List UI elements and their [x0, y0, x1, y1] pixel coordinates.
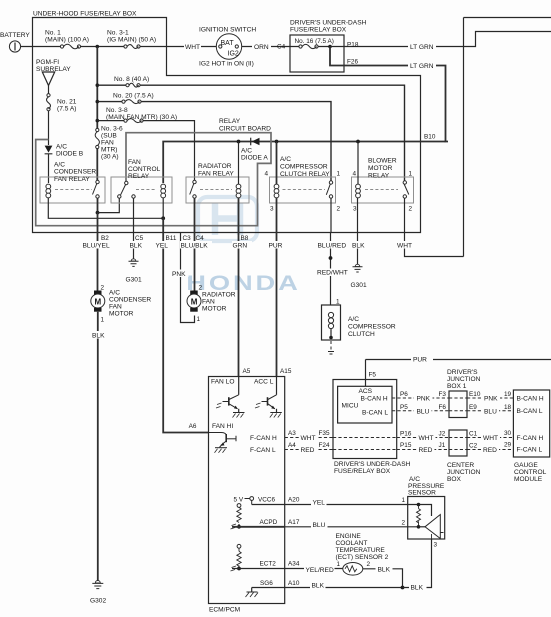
wire P15 RED J1 — [397, 449, 449, 451]
svg-text:PNK: PNK — [172, 271, 186, 278]
wire A17 BLU to pressure sensor — [232, 526, 285, 528]
A/C diode B — [45, 146, 53, 183]
svg-text:B-CAN L: B-CAN L — [362, 410, 388, 417]
svg-text:No. 20 (7.5 A): No. 20 (7.5 A) — [113, 93, 154, 100]
svg-text:RADIATOR: RADIATOR — [202, 292, 236, 299]
svg-text:4: 4 — [352, 171, 356, 178]
svg-text:A4: A4 — [288, 442, 296, 449]
svg-text:A5: A5 — [243, 368, 251, 375]
svg-text:F35: F35 — [319, 430, 330, 437]
svg-text:4: 4 — [264, 171, 268, 178]
wire C5 BLK to G301 — [133, 233, 135, 261]
svg-text:WHT: WHT — [483, 435, 498, 442]
svg-text:B-CAN L: B-CAN L — [517, 408, 543, 415]
svg-text:CONDENSER: CONDENSER — [109, 297, 151, 304]
ignition switch — [216, 34, 241, 59]
relay A/C compressor clutch relay coil — [274, 184, 279, 198]
svg-text:F3: F3 — [439, 391, 447, 398]
svg-text:BLOWER: BLOWER — [368, 158, 397, 165]
relay A/C compressor clutch relay link — [283, 189, 326, 191]
svg-text:2: 2 — [409, 206, 413, 213]
svg-text:ENGINE: ENGINE — [336, 533, 362, 540]
wire blower coil to BLK pin 3 — [357, 198, 359, 233]
svg-text:CIRCUIT BOARD: CIRCUIT BOARD — [219, 126, 271, 133]
svg-text:SUBRELAY: SUBRELAY — [36, 66, 71, 73]
svg-text:E10: E10 — [469, 391, 481, 398]
radiator fan motor — [187, 291, 201, 312]
wire PUR to ECM A15 — [276, 233, 278, 377]
svg-text:FAN: FAN — [101, 140, 114, 147]
svg-text:MICU: MICU — [342, 403, 359, 410]
svg-text:FUSE/RELAY BOX: FUSE/RELAY BOX — [334, 468, 391, 475]
svg-text:(MAIN FAN MTR) (30 A): (MAIN FAN MTR) (30 A) — [106, 114, 177, 121]
svg-text:A20: A20 — [288, 497, 300, 504]
svg-text:COMPRESSOR: COMPRESSOR — [280, 164, 328, 171]
wire F-CAN L row through driver's box — [333, 449, 397, 451]
svg-text:BLK: BLK — [130, 243, 143, 250]
PGM-FI subrelay — [42, 72, 54, 94]
svg-text:B-CAN H: B-CAN H — [361, 396, 388, 403]
svg-text:1: 1 — [337, 171, 341, 178]
svg-text:BAT: BAT — [221, 40, 235, 47]
svg-text:P5: P5 — [400, 404, 408, 411]
svg-text:No. 3-8: No. 3-8 — [106, 107, 128, 114]
ECM/PCM box — [209, 377, 285, 604]
fuse No.21 (7.5 A) — [47, 94, 51, 145]
watermark Honda H emblem — [198, 197, 257, 241]
wire ignition to driver's box ORN — [242, 46, 290, 48]
svg-text:J2: J2 — [439, 431, 446, 438]
svg-text:1: 1 — [409, 171, 413, 178]
MICU box — [338, 386, 392, 423]
wire pressure sensor pin3 BLK — [403, 539, 432, 588]
wire BLU/RED RED/WHT to A/C compressor clutch — [330, 233, 332, 305]
svg-text:J1: J1 — [439, 442, 446, 449]
svg-text:YEL/RED: YEL/RED — [306, 567, 334, 574]
svg-text:B2: B2 — [101, 235, 109, 242]
relay A/C compressor clutch relay box — [270, 177, 336, 203]
center junction box — [449, 430, 467, 456]
svg-text:C3: C3 — [183, 235, 192, 242]
svg-text:ECT2: ECT2 — [260, 561, 277, 568]
svg-text:JUNCTION: JUNCTION — [447, 469, 481, 476]
wire F26 LT GRN to B10 — [330, 47, 448, 142]
svg-text:PUR: PUR — [269, 243, 283, 250]
fuse No.8 symbol — [126, 83, 140, 87]
wire C4 BLU/BLK to radiator motor — [194, 233, 196, 291]
svg-text:F5: F5 — [369, 372, 377, 379]
transistor FAN HI — [208, 433, 236, 453]
svg-text:G301: G301 — [351, 282, 367, 289]
wire blower switch to WHT pin 2 — [404, 198, 406, 233]
svg-text:BOX 1: BOX 1 — [447, 383, 467, 390]
svg-text:YEL: YEL — [313, 500, 326, 507]
fuse No.20 symbol — [122, 100, 141, 104]
transistor FAN LO — [216, 377, 245, 418]
svg-text:M: M — [95, 298, 102, 307]
fuse No.3-6 (SUB FAN MTR) (30 A) — [95, 128, 99, 148]
svg-text:FAN LO: FAN LO — [211, 379, 234, 386]
svg-text:LT GRN: LT GRN — [410, 44, 434, 51]
wire fuse No.3-8 to radiator relay — [97, 121, 194, 182]
wire B11 YEL to ECM A6 — [163, 218, 208, 432]
svg-text:A/C: A/C — [348, 316, 359, 323]
svg-text:C1: C1 — [469, 431, 478, 438]
wire A10 BLK — [252, 587, 403, 589]
svg-text:2: 2 — [199, 285, 203, 292]
wire compressor relay coil tap — [276, 142, 278, 185]
svg-text:3: 3 — [353, 206, 357, 213]
label WHT — [184, 43, 201, 52]
relay radiator fan relay switch — [190, 180, 197, 198]
svg-text:BLU: BLU — [417, 408, 430, 415]
svg-text:MODULE: MODULE — [514, 476, 543, 483]
wire E10 PNK 19 — [467, 397, 513, 399]
svg-text:TEMPERATURE: TEMPERATURE — [336, 547, 386, 554]
relay fan control relay switch — [118, 181, 136, 198]
wire C1 WHT 30 — [467, 437, 513, 439]
svg-text:PNK: PNK — [417, 396, 431, 403]
svg-text:WHT: WHT — [301, 435, 316, 442]
relay coil feed wire LT GRN B10 — [163, 142, 445, 184]
wire F-CAN H A3 to F35 — [285, 437, 333, 439]
svg-text:C5: C5 — [135, 235, 144, 242]
svg-text:COOLANT: COOLANT — [336, 540, 368, 547]
wire compressor coil to PUR pin 3 — [276, 198, 278, 233]
node compressor relay coil tap — [275, 140, 279, 144]
relay A/C condenser fan relay switch — [93, 180, 100, 198]
svg-text:A/C: A/C — [409, 476, 420, 483]
relay fan control relay link — [136, 189, 157, 191]
svg-text:(MAIN) (100 A): (MAIN) (100 A) — [45, 37, 89, 44]
battery B1 — [9, 41, 32, 52]
svg-text:BLK: BLK — [92, 333, 105, 340]
svg-text:F-CAN H: F-CAN H — [250, 435, 277, 442]
svg-text:G301: G301 — [126, 277, 142, 284]
svg-text:WHT: WHT — [419, 435, 434, 442]
svg-text:CONTROL: CONTROL — [514, 469, 547, 476]
node radiator relay coil tap — [237, 140, 241, 144]
svg-text:1: 1 — [101, 317, 105, 324]
svg-text:DIODE B: DIODE B — [56, 151, 84, 158]
svg-text:B-CAN H: B-CAN H — [517, 396, 544, 403]
svg-text:A10: A10 — [288, 580, 300, 587]
svg-text:F-CAN H: F-CAN H — [517, 435, 544, 442]
relay blower motor relay switch — [403, 181, 409, 198]
label A/C diode A — [240, 146, 270, 162]
wire VCC6 5V pull-up — [231, 497, 254, 529]
svg-text:MOTOR: MOTOR — [109, 311, 134, 318]
svg-text:FAN RELAY: FAN RELAY — [54, 176, 90, 183]
fuse No.3-1 (IG MAIN) (50 A) — [124, 45, 140, 49]
svg-text:P16: P16 — [400, 431, 412, 438]
svg-text:No. 21: No. 21 — [57, 99, 77, 106]
relay radiator fan relay coil — [236, 184, 241, 198]
fuse No.3-8 symbol — [124, 119, 143, 123]
svg-text:FAN: FAN — [109, 304, 122, 311]
svg-text:2: 2 — [101, 285, 105, 292]
svg-text:FUSE/RELAY BOX: FUSE/RELAY BOX — [290, 27, 347, 34]
svg-text:2: 2 — [367, 561, 371, 568]
relay radiator fan relay box — [186, 177, 249, 203]
svg-text:RED: RED — [419, 447, 433, 454]
svg-text:(IG MAIN) (50 A): (IG MAIN) (50 A) — [107, 37, 156, 44]
relay A/C compressor clutch relay switch — [326, 181, 332, 198]
svg-text:DIODE A: DIODE A — [241, 155, 268, 162]
svg-text:A/C: A/C — [54, 162, 65, 169]
svg-text:PGM-FI: PGM-FI — [36, 59, 59, 66]
svg-text:No. 3-6: No. 3-6 — [101, 126, 123, 133]
svg-text:F-CAN L: F-CAN L — [517, 447, 543, 454]
svg-text:RED: RED — [483, 447, 497, 454]
node ACPD junction — [237, 525, 241, 529]
node splice RED/WHT — [329, 256, 333, 260]
svg-text:RED/WHT: RED/WHT — [317, 270, 348, 277]
svg-text:PNK: PNK — [484, 396, 498, 403]
svg-text:2: 2 — [401, 520, 405, 527]
svg-text:C4: C4 — [196, 235, 205, 242]
svg-text:M: M — [191, 298, 198, 307]
wire battery feed — [33, 46, 217, 48]
node B2 junction — [96, 211, 100, 215]
svg-text:C2: C2 — [469, 443, 478, 450]
svg-text:JUNCTION: JUNCTION — [447, 376, 481, 383]
relay fan control relay coil — [161, 184, 166, 198]
relay A/C condenser fan relay box — [40, 177, 105, 203]
wire PUR off-page — [366, 359, 551, 361]
label wire colors row — [82, 241, 117, 250]
wire F-CAN L A4 to F24 — [285, 449, 333, 451]
driver's junction box 1 — [449, 391, 467, 418]
fuse No.1 (MAIN) (100 A) — [60, 44, 80, 49]
svg-text:A/C: A/C — [241, 148, 252, 155]
wire A20 YEL to pressure sensor — [252, 504, 419, 506]
svg-text:A3: A3 — [288, 430, 296, 437]
svg-text:DRIVER'S: DRIVER'S — [447, 369, 478, 376]
node No.3-8 tap — [96, 119, 100, 123]
wire fuse No.20 to compressor relay — [97, 102, 331, 182]
node ECT2 junction — [237, 567, 241, 571]
gauge control module box — [513, 390, 549, 457]
svg-text:BLK: BLK — [411, 585, 424, 592]
wire blower relay coil tap — [357, 142, 359, 185]
wire condenser switch to B2 — [97, 198, 99, 212]
node No.16 output junction — [328, 45, 332, 49]
svg-text:BATTERY: BATTERY — [0, 32, 30, 39]
svg-text:1: 1 — [336, 561, 340, 568]
svg-text:COMPRESSOR: COMPRESSOR — [348, 324, 396, 331]
svg-text:C4: C4 — [277, 44, 286, 51]
node blower relay coil tap — [356, 140, 360, 144]
relay blower motor relay coil — [356, 184, 361, 198]
svg-text:1: 1 — [197, 316, 201, 323]
svg-text:B8: B8 — [241, 235, 249, 242]
fuse No.16 (7.5 A) — [290, 44, 330, 48]
svg-text:F6: F6 — [439, 404, 447, 411]
svg-text:29: 29 — [504, 442, 512, 449]
relay A/C condenser fan relay link — [55, 189, 92, 191]
svg-text:F-CAN L: F-CAN L — [250, 447, 276, 454]
wire P16 WHT J2 — [397, 437, 449, 439]
wire fan control NC contact to B2 node — [98, 198, 120, 212]
svg-text:VCC6: VCC6 — [258, 497, 275, 504]
svg-text:(ECT) SENSOR 2: (ECT) SENSOR 2 — [336, 554, 389, 561]
svg-text:No. 1: No. 1 — [45, 30, 61, 37]
svg-text:SG6: SG6 — [260, 580, 273, 587]
A/C compressor clutch — [322, 305, 341, 354]
svg-text:(30 A): (30 A) — [101, 154, 119, 161]
wire condenser motor BLK to G302 — [97, 312, 99, 583]
wire F5 PUR — [365, 360, 367, 387]
wire fan control common feed (gray path) — [36, 133, 271, 226]
svg-text:30: 30 — [504, 430, 512, 437]
ground G302 — [92, 581, 103, 589]
wire condenser coil to B11 node — [48, 198, 163, 218]
wire A34 YEL/RED to ECT sensor — [232, 568, 343, 570]
svg-text:RADIATOR: RADIATOR — [198, 163, 232, 170]
svg-text:BLK: BLK — [378, 567, 391, 574]
svg-text:RELAY: RELAY — [128, 173, 150, 180]
svg-text:MOTOR: MOTOR — [368, 165, 393, 172]
under-hood fuse/relay box — [33, 18, 421, 233]
wire fan control NO contact to C5 — [133, 198, 135, 233]
wire B2 BLU/YEL to condenser fan motor — [97, 213, 99, 291]
svg-text:ACPD: ACPD — [260, 519, 278, 526]
svg-text:BLU: BLU — [313, 522, 326, 529]
svg-text:WHT: WHT — [397, 243, 412, 250]
wire radiator relay coil tap — [238, 142, 240, 185]
node No.8 tap — [96, 83, 100, 87]
wire compressor switch to BLU/RED pin 2 — [330, 198, 332, 233]
A/C pressure sensor — [408, 497, 445, 540]
svg-text:E9: E9 — [469, 404, 477, 411]
svg-text:CLUTCH: CLUTCH — [348, 331, 375, 338]
wire E9 BLU 18 — [467, 410, 513, 412]
svg-text:No. 16 (7.5 A): No. 16 (7.5 A) — [295, 38, 334, 45]
transistor ACC L — [255, 377, 282, 418]
node coil return junction — [161, 216, 165, 220]
svg-text:A34: A34 — [288, 561, 300, 568]
svg-text:P18: P18 — [347, 42, 359, 49]
ground G301 right — [353, 264, 363, 272]
svg-text:FAN: FAN — [128, 159, 141, 166]
svg-text:19: 19 — [504, 391, 512, 398]
svg-text:B10: B10 — [424, 134, 436, 141]
svg-text:1: 1 — [336, 299, 340, 306]
svg-text:GAUGE: GAUGE — [514, 462, 538, 469]
svg-text:F26: F26 — [347, 59, 358, 66]
bus fuse row vertical — [96, 47, 98, 183]
label PNK — [172, 270, 189, 279]
label fuse No.3-6 — [100, 124, 123, 161]
svg-text:5 V: 5 V — [234, 497, 244, 504]
svg-text:CONDENSER: CONDENSER — [54, 169, 96, 176]
svg-text:A6: A6 — [189, 423, 197, 430]
A/C condenser fan motor — [91, 291, 105, 312]
wire BLK to G301 right — [357, 233, 359, 267]
node ground splice — [401, 586, 405, 590]
svg-text:FAN HI: FAN HI — [212, 423, 233, 430]
svg-text:SENSOR: SENSOR — [408, 490, 436, 497]
svg-text:GRN: GRN — [233, 243, 248, 250]
svg-text:RELAY: RELAY — [368, 173, 390, 180]
svg-text:BLK: BLK — [312, 583, 325, 590]
svg-text:PUR: PUR — [413, 357, 427, 364]
wire B-CAN L P5 BLU F6 — [392, 410, 449, 412]
svg-text:YEL: YEL — [156, 243, 169, 250]
svg-text:MOTOR: MOTOR — [202, 306, 227, 313]
svg-text:ACS: ACS — [359, 388, 373, 395]
label BLK condenser motor — [92, 331, 111, 340]
svg-text:WHT: WHT — [185, 44, 200, 51]
A/C diode A — [251, 138, 260, 146]
svg-text:A/C: A/C — [109, 290, 120, 297]
wire B-CAN H P6 PNK F3 — [392, 397, 449, 399]
svg-text:DRIVER'S UNDER-DASH: DRIVER'S UNDER-DASH — [290, 20, 367, 27]
svg-text:A15: A15 — [280, 368, 292, 375]
wire C3 PNK to radiator motor loop — [181, 233, 195, 323]
svg-text:CLUTCH RELAY: CLUTCH RELAY — [280, 171, 330, 178]
relay radiator fan relay link — [200, 189, 232, 191]
svg-text:DRIVER'S UNDER-DASH: DRIVER'S UNDER-DASH — [334, 461, 411, 468]
relay blower motor relay box — [352, 177, 414, 203]
svg-text:BLU: BLU — [484, 408, 497, 415]
driver's under-dash fuse/relay box (bottom) — [333, 380, 397, 459]
svg-text:IG2: IG2 — [228, 51, 239, 58]
svg-text:2: 2 — [337, 206, 341, 213]
svg-text:BLU/RED: BLU/RED — [318, 243, 347, 250]
svg-text:BLU/YEL: BLU/YEL — [83, 243, 110, 250]
wire C2 RED 29 — [467, 449, 513, 451]
svg-text:A/C: A/C — [56, 144, 67, 151]
ECT sensor 2 — [343, 563, 363, 576]
svg-text:IGNITION SWITCH: IGNITION SWITCH — [199, 27, 256, 34]
svg-text:A/C: A/C — [280, 156, 291, 163]
relay fan control relay box — [111, 177, 172, 203]
node battery junction — [96, 45, 100, 49]
wire P18 LT GRN off-page — [330, 32, 551, 47]
label ORN — [253, 43, 271, 52]
svg-text:ECM/PCM: ECM/PCM — [209, 607, 240, 614]
svg-text:CENTER: CENTER — [447, 462, 474, 469]
svg-text:No. 8 (40 A): No. 8 (40 A) — [114, 76, 149, 83]
svg-text:ORN: ORN — [254, 44, 269, 51]
wire B8 GRN to ECM A5 — [238, 233, 240, 377]
driver's under-dash fuse/relay box (top) — [290, 35, 344, 72]
node No.20 tap — [96, 100, 100, 104]
wire SG6 ground — [246, 588, 259, 598]
svg-text:3: 3 — [270, 206, 274, 213]
svg-text:ACC L: ACC L — [254, 379, 274, 386]
svg-text:BLU/BLK: BLU/BLK — [181, 243, 209, 250]
svg-text:RELAY: RELAY — [219, 118, 241, 125]
wire radiator coil to B8 — [238, 198, 240, 233]
svg-text:BLK: BLK — [352, 243, 365, 250]
svg-text:G302: G302 — [90, 598, 106, 605]
relay blower motor relay link — [365, 189, 398, 191]
svg-text:CONTROL: CONTROL — [128, 166, 161, 173]
svg-text:1: 1 — [401, 497, 405, 504]
wire fan control coil to node — [162, 198, 164, 218]
wire off-page WHT right edge — [405, 18, 551, 257]
wire fuse No.8 to blower relay — [97, 85, 404, 181]
wire ECT2 pull-up — [231, 544, 242, 571]
svg-text:(7.5 A): (7.5 A) — [57, 106, 76, 113]
svg-text:P15: P15 — [400, 442, 412, 449]
svg-text:B11: B11 — [166, 235, 177, 242]
svg-text:MTR): MTR) — [101, 147, 117, 154]
wire ECT BLK to ground node — [363, 569, 403, 588]
